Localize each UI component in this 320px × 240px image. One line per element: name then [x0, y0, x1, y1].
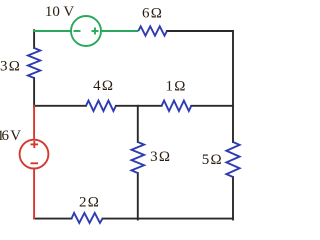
svg-text:4 Ω: 4 Ω [93, 78, 113, 94]
svg-text:2 Ω: 2 Ω [79, 195, 99, 211]
svg-text:10 V: 10 V [45, 4, 74, 20]
svg-text:3 Ω: 3 Ω [0, 59, 20, 75]
svg-text:3 Ω: 3 Ω [150, 149, 170, 165]
svg-text:6 Ω: 6 Ω [142, 6, 162, 22]
svg-text:5 Ω: 5 Ω [202, 152, 222, 168]
svg-text:1 Ω: 1 Ω [166, 78, 186, 94]
svg-text:6: 6 [2, 128, 10, 144]
svg-text:V: V [10, 128, 21, 144]
